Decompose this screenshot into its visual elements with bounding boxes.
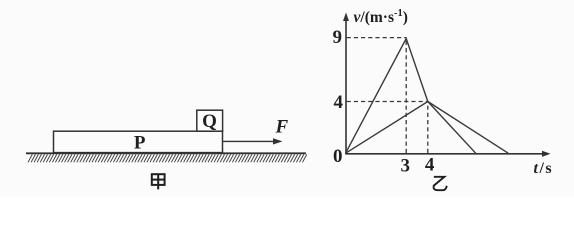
svg-text:P: P xyxy=(134,132,146,153)
svg-text:4: 4 xyxy=(333,92,343,113)
svg-text:t/s: t/s xyxy=(534,160,554,177)
svg-text:0: 0 xyxy=(333,146,343,167)
svg-text:3: 3 xyxy=(400,156,410,177)
svg-text:F: F xyxy=(274,116,288,137)
svg-text:9: 9 xyxy=(332,27,342,48)
svg-text:4: 4 xyxy=(425,155,435,176)
svg-text:v/(m·s-1): v/(m·s-1) xyxy=(354,8,408,26)
svg-text:Q: Q xyxy=(202,111,217,132)
